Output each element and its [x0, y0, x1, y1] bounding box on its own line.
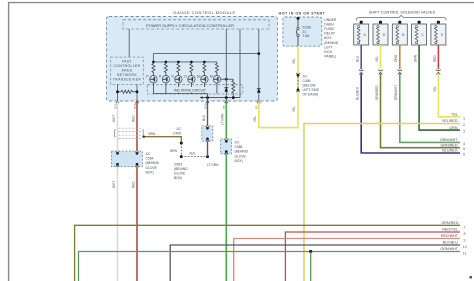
- junction connector C405: [202, 126, 213, 142]
- svg-text:2: 2: [463, 123, 465, 127]
- svg-text:M: M: [210, 74, 213, 78]
- svg-text:BLK: BLK: [202, 114, 206, 121]
- transistor Q5 Ds column: [197, 61, 208, 94]
- node junction CAN-L: [136, 90, 139, 93]
- pin B17 chevron WHT: [116, 101, 119, 103]
- wire LT GRN external: [225, 101, 227, 281]
- wire YEL/RED trunk: [304, 124, 460, 281]
- svg-text:IND DRIVE CIRCUIT: IND DRIVE CIRCUIT: [174, 89, 206, 93]
- svg-text:YEL: YEL: [292, 106, 296, 112]
- svg-text:FUSE/: FUSE/: [324, 27, 334, 31]
- inline connector wire B: [397, 69, 402, 74]
- svg-text:BRN: BRN: [170, 149, 177, 153]
- wire GRN/WHT solenoid B lower: [400, 74, 460, 143]
- svg-text:GAUGE CONTROL MODULE: GAUGE CONTROL MODULE: [173, 10, 235, 15]
- wire PSCC to FAST transceiver: [128, 29, 130, 57]
- svg-text:YEL: YEL: [292, 58, 296, 64]
- wire BLK/BLU bottom bus 10: [170, 245, 460, 281]
- svg-text:C554: C554: [146, 157, 154, 161]
- svg-text:FAST: FAST: [122, 60, 132, 64]
- svg-text:AREA: AREA: [122, 69, 133, 73]
- node junction col B: [225, 78, 228, 81]
- svg-text:KICK: KICK: [324, 50, 333, 54]
- wire collector tie M to clamp columns: [221, 78, 234, 80]
- label J/C C405: [173, 127, 182, 136]
- brace over solenoid valves: [356, 15, 446, 20]
- wire YEL solenoid D: [380, 45, 382, 70]
- svg-text:C405: C405: [173, 132, 181, 136]
- wire emitter bus: [153, 93, 207, 95]
- node junction clamp resistor bus: [232, 96, 235, 99]
- wire BLU/BLK solenoid A lower: [361, 74, 460, 153]
- svg-text:BOX): BOX): [174, 176, 182, 180]
- svg-text:8: 8: [464, 232, 466, 236]
- wire BLU solenoid A: [360, 45, 362, 70]
- shield bracket right: [142, 130, 143, 137]
- solenoid valve A: [354, 21, 369, 45]
- gauge control module U1 outline: [106, 10, 277, 101]
- node junction col B bus: [225, 96, 228, 99]
- wire GRN/WHT bottom bus 11: [79, 252, 461, 281]
- solenoid valve E: [431, 21, 446, 45]
- shield bracket left: [115, 130, 116, 137]
- svg-text:RED/WHT: RED/WHT: [441, 234, 459, 238]
- svg-text:LEFT: LEFT: [324, 45, 332, 49]
- svg-text:B10: B10: [203, 103, 207, 108]
- node junction BLK pin: [206, 96, 209, 99]
- wire CAN-H drop inside module: [117, 84, 119, 101]
- pin B1 chevron YEL: [257, 101, 260, 103]
- wire GRN solenoid C full run: [419, 45, 460, 130]
- svg-text:NETWORK: NETWORK: [117, 73, 137, 77]
- power supply circuit controller block: [123, 20, 269, 29]
- node BLK end: [206, 155, 209, 158]
- inline connector wire E: [436, 69, 441, 74]
- svg-text:5: 5: [463, 147, 465, 151]
- diode D1 clamp: [224, 88, 228, 92]
- svg-text:BOX): BOX): [146, 170, 154, 174]
- ind drive circuit block: [147, 85, 243, 94]
- svg-text:RED: RED: [131, 115, 135, 122]
- svg-text:BRN: BRN: [149, 132, 156, 136]
- transistor Q4 D column: [184, 61, 195, 94]
- svg-text:(BEHIND: (BEHIND: [235, 150, 249, 154]
- resistor R-clamp column: [232, 79, 235, 97]
- junction connector C406: [296, 73, 299, 92]
- page frame top border: [8, 2, 474, 4]
- svg-text:GRN/WHT: GRN/WHT: [440, 247, 458, 251]
- pin B15 chevron RED: [135, 101, 138, 103]
- svg-text:ORG: ORG: [394, 54, 398, 62]
- wire YEL supply column: [258, 29, 260, 101]
- svg-text:LT GRN: LT GRN: [221, 113, 225, 125]
- svg-text:(BEHIND: (BEHIND: [146, 161, 160, 165]
- svg-text:SHIFT CONTROL SOLENOID VALVES: SHIFT CONTROL SOLENOID VALVES: [369, 10, 436, 14]
- wire bus up to PSCC: [239, 29, 241, 98]
- svg-text:PANEL): PANEL): [324, 55, 336, 59]
- pin number labels: [113, 103, 258, 108]
- wire WHT CAN-H external: [117, 101, 119, 281]
- wire GRN/RED bottom bus 7: [75, 225, 460, 281]
- node junction BRN top: [180, 142, 183, 145]
- svg-text:WHT: WHT: [112, 115, 116, 122]
- wire BLK external: [207, 101, 209, 156]
- transistor Q1 P column: [146, 61, 157, 94]
- svg-text:DASH: DASH: [324, 22, 334, 26]
- twisted pair shield symbol: [119, 128, 142, 138]
- svg-text:RED/YEL: RED/YEL: [442, 228, 458, 232]
- svg-text:C556: C556: [235, 145, 243, 149]
- wire column B PSCC to bus: [225, 29, 227, 98]
- label UNDER DASH FUSE/RELAY BOX: [324, 18, 338, 59]
- wire YEL fuse down: [297, 46, 299, 90]
- wire GRN/RED solenoid D lower: [381, 74, 461, 148]
- svg-text:GLOVE: GLOVE: [235, 154, 247, 158]
- svg-text:4: 4: [463, 142, 465, 146]
- exit labels bottom right: [440, 221, 458, 251]
- wire YEL solenoid E lower: [438, 74, 460, 117]
- svg-text:YEL/RED: YEL/RED: [442, 119, 458, 123]
- svg-text:11: 11: [463, 251, 467, 255]
- ind drive circuit label: [169, 87, 211, 93]
- diode D2 supply: [257, 89, 261, 93]
- svg-text:7: 7: [464, 225, 466, 229]
- svg-text:HOT IN ON OR START: HOT IN ON OR START: [279, 12, 326, 16]
- wire RED CAN-L external: [136, 101, 138, 281]
- svg-text:YEL: YEL: [375, 56, 379, 62]
- transistor Q6 M column: [210, 62, 221, 94]
- svg-text:GRN/RED: GRN/RED: [440, 143, 457, 147]
- FAST controller area network transceiver block: [111, 57, 144, 84]
- svg-text:(BEHIND: (BEHIND: [174, 167, 188, 171]
- svg-text:YEL: YEL: [253, 116, 257, 122]
- ground G503 node: [180, 155, 183, 158]
- svg-text:GRN/RED: GRN/RED: [441, 221, 458, 225]
- exit labels right top: [440, 113, 458, 153]
- svg-text:BLK: BLK: [190, 151, 197, 155]
- svg-text:BLK/BLU: BLK/BLU: [443, 241, 459, 245]
- svg-text:GRN: GRN: [449, 126, 458, 130]
- svg-text:RED: RED: [132, 181, 136, 188]
- label J/C C556: [235, 141, 249, 163]
- svg-text:UNDER: UNDER: [324, 18, 337, 22]
- svg-text:BLU/BLK: BLU/BLK: [356, 86, 360, 100]
- svg-text:OF DASH): OF DASH): [303, 93, 319, 97]
- svg-text:BLU/BLK: BLU/BLK: [442, 149, 458, 153]
- svg-text:CONTROLLER: CONTROLLER: [113, 64, 140, 68]
- svg-text:G503: G503: [174, 163, 182, 167]
- svg-text:(BELOW: (BELOW: [303, 84, 317, 88]
- svg-text:BOX): BOX): [235, 159, 243, 163]
- svg-text:3: 3: [463, 130, 465, 134]
- svg-text:TRANSCEIVER: TRANSCEIVER: [113, 78, 142, 82]
- wire col B to LT GRN pin: [225, 98, 227, 102]
- node junction YEL feed: [257, 52, 260, 55]
- junction connector C556: [221, 139, 232, 154]
- solenoid valve B: [392, 21, 407, 45]
- label J/C C554: [146, 152, 160, 174]
- wire GRN/WHT branch down: [310, 252, 312, 281]
- transistor Q3 N column: [171, 61, 182, 94]
- wire BRN shield drain: [143, 137, 181, 143]
- svg-text:(BEHIND: (BEHIND: [324, 41, 338, 45]
- svg-text:GRN/WHT: GRN/WHT: [394, 85, 398, 100]
- wire feed bus from PSCC: [153, 54, 259, 62]
- page frame left border: [8, 2, 10, 281]
- svg-text:GRN/WHT: GRN/WHT: [440, 138, 458, 142]
- svg-text:BLU: BLU: [356, 55, 360, 62]
- corner mark: [470, 276, 473, 279]
- wire ground return bus: [200, 96, 240, 98]
- svg-text:GLOVE: GLOVE: [146, 166, 158, 170]
- node junction CAN-H: [116, 90, 119, 93]
- svg-text:6: 6: [463, 153, 465, 157]
- svg-text:J/C: J/C: [176, 127, 182, 131]
- junction connector C554: [111, 151, 142, 167]
- transistor Q2 R column: [159, 61, 170, 94]
- svg-text:RED: RED: [433, 55, 437, 62]
- svg-text:9: 9: [464, 238, 466, 242]
- svg-text:WHT: WHT: [112, 181, 116, 188]
- solenoid valve C: [412, 21, 427, 45]
- svg-text:7.5A: 7.5A: [303, 34, 311, 38]
- wire ORG solenoid B: [399, 45, 401, 70]
- svg-text:Ds: Ds: [197, 74, 201, 78]
- inline connector wire A: [359, 69, 364, 74]
- svg-text:YEL: YEL: [451, 113, 458, 117]
- wire BLK splice link: [181, 156, 207, 158]
- fuse box F1: [283, 17, 322, 46]
- wire RED solenoid E: [437, 45, 439, 70]
- svg-text:C406: C406: [303, 79, 311, 83]
- svg-text:POWER SUPPLY CIRCULATION CONTR: POWER SUPPLY CIRCULATION CONTROLLER: [146, 23, 234, 28]
- label G503: [174, 163, 188, 181]
- wire BRN to ground splice: [180, 143, 182, 157]
- inline connector wire D: [378, 69, 383, 74]
- pin B10 chevron BLK: [206, 101, 209, 103]
- svg-text:J/C: J/C: [235, 141, 241, 145]
- solenoid valve D: [373, 21, 388, 45]
- svg-text:BOX: BOX: [324, 36, 332, 40]
- svg-text:B17: B17: [113, 103, 117, 108]
- svg-text:YEL: YEL: [433, 86, 437, 92]
- label FUSE 21 7.5A: [303, 26, 313, 38]
- resistor R-term CAN terminating: [118, 90, 138, 93]
- svg-text:LEFT SIDE: LEFT SIDE: [303, 88, 320, 92]
- wire base bus of driver transistors: [153, 61, 217, 63]
- svg-text:10: 10: [463, 245, 467, 249]
- label J/C C406: [303, 75, 320, 97]
- svg-text:GRN/RED: GRN/RED: [375, 85, 379, 100]
- pin B5 chevron LT GRN: [225, 101, 228, 103]
- wire RED/WHT bottom bus 9: [234, 239, 460, 281]
- wire YEL from module to fuse: [259, 90, 298, 128]
- node junction bus 11: [309, 250, 312, 253]
- svg-text:RELAY: RELAY: [324, 32, 336, 36]
- wire CAN-L drop inside module: [136, 84, 138, 101]
- svg-text:GRN: GRN: [414, 54, 418, 62]
- svg-text:1: 1: [463, 117, 465, 121]
- svg-text:GLOVE: GLOVE: [174, 172, 186, 176]
- wire emitter to BLK pin: [207, 94, 209, 102]
- wire RED/YEL bottom bus 8: [285, 232, 460, 281]
- node shield drain tap: [143, 136, 145, 138]
- svg-text:LT GRN: LT GRN: [207, 163, 219, 167]
- svg-text:J/C: J/C: [146, 152, 152, 156]
- svg-text:J/C: J/C: [303, 75, 309, 79]
